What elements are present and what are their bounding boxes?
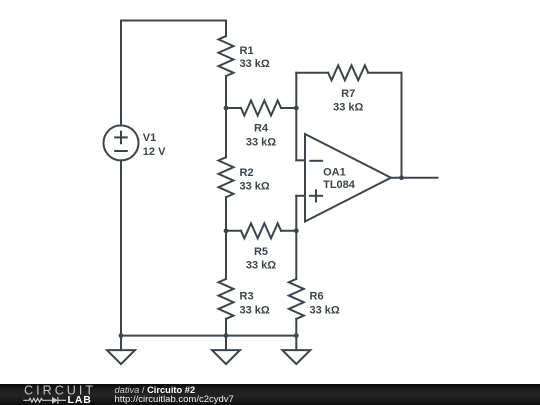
- ground left: [107, 350, 135, 364]
- svg-text:33 kΩ: 33 kΩ: [240, 181, 270, 193]
- wire C column plus input to R6: [295, 196, 297, 279]
- ground stub left: [120, 336, 122, 351]
- resistor R5: [241, 223, 281, 238]
- svg-text:33 kΩ: 33 kΩ: [240, 305, 270, 317]
- svg-text:33 kΩ: 33 kΩ: [333, 102, 363, 114]
- wire R5 left lead: [226, 230, 241, 232]
- wire minus input stub: [296, 159, 305, 161]
- label R1 value: [240, 45, 270, 70]
- wire ground bus: [121, 335, 296, 337]
- node bus middle junction: [224, 333, 229, 338]
- label R6 value: [310, 291, 340, 317]
- wire R4 right lead: [281, 107, 296, 109]
- resistor R4: [241, 101, 281, 116]
- resistor R3: [219, 279, 234, 319]
- node output junction: [399, 175, 404, 180]
- footer logo symbol: [23, 397, 66, 404]
- wire left rail upper: [120, 21, 122, 126]
- node R5/plus/R6 junction: [294, 228, 299, 233]
- svg-text:R1: R1: [240, 45, 254, 57]
- footer bar: [0, 384, 540, 405]
- resistor R2: [219, 157, 234, 197]
- svg-text:TL084: TL084: [323, 179, 356, 191]
- svg-text:33 kΩ: 33 kΩ: [240, 58, 270, 70]
- op-amp OA1: [305, 134, 391, 222]
- node R2/R5/R3 junction: [224, 228, 229, 233]
- svg-text:OA1: OA1: [323, 166, 346, 178]
- ground stub right: [295, 336, 297, 351]
- label R4 value: [246, 123, 276, 149]
- svg-text:V1: V1: [143, 132, 156, 144]
- svg-text:12 V: 12 V: [143, 146, 166, 158]
- wire C column R7 to minus input: [295, 73, 297, 161]
- svg-text:R4: R4: [254, 123, 269, 135]
- wire plus input stub: [296, 195, 305, 197]
- svg-text:R5: R5: [254, 246, 268, 258]
- svg-text:LAB: LAB: [68, 394, 92, 405]
- label R3 value: [240, 291, 270, 317]
- label R7 value: [333, 88, 363, 113]
- svg-text:R6: R6: [310, 291, 324, 303]
- label R2 value: [240, 167, 270, 192]
- node R4/feedback junction: [294, 106, 299, 111]
- resistor R7: [328, 65, 368, 80]
- wire top rail: [121, 20, 226, 22]
- label OA1 value: [323, 166, 356, 191]
- resistor R1: [219, 36, 234, 76]
- ground right: [282, 350, 310, 364]
- wire C column R6 to bus: [295, 319, 297, 336]
- svg-text:R3: R3: [240, 291, 254, 303]
- svg-text:R2: R2: [240, 167, 254, 179]
- wire R7 left lead: [296, 72, 328, 74]
- node bus right junction: [294, 333, 299, 338]
- wire B column above R1: [225, 21, 227, 37]
- svg-text:33 kΩ: 33 kΩ: [246, 260, 276, 272]
- wire R4 left lead: [226, 107, 241, 109]
- ground stub middle: [225, 336, 227, 351]
- ground middle: [212, 350, 240, 364]
- voltage source V1: [104, 125, 139, 160]
- svg-text:33 kΩ: 33 kΩ: [310, 305, 340, 317]
- svg-text:http://circuitlab.com/c2cydv7: http://circuitlab.com/c2cydv7: [115, 394, 234, 405]
- svg-text:33 kΩ: 33 kΩ: [246, 137, 276, 149]
- wire B column R1 to R2: [225, 76, 227, 157]
- svg-text:R7: R7: [341, 88, 355, 100]
- wire B column R2 to R3: [225, 197, 227, 279]
- node R1/R4/R2 junction: [224, 106, 229, 111]
- wire R5 right lead: [281, 230, 296, 232]
- wire D column R7 to output: [401, 73, 403, 178]
- wire B column R3 to bus: [225, 319, 227, 336]
- wire R7 right lead: [368, 72, 401, 74]
- label V1 value: [143, 132, 166, 158]
- label R5 value: [246, 246, 276, 272]
- node bus left junction: [119, 333, 124, 338]
- wire left rail lower: [120, 160, 122, 335]
- resistor R6: [289, 279, 304, 319]
- wire output: [391, 177, 438, 179]
